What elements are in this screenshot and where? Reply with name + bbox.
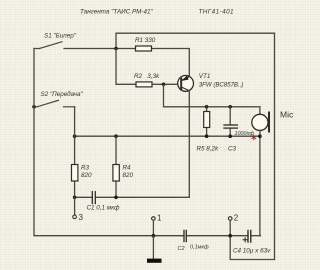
svg-text:820: 820 [81, 172, 92, 179]
ground stem [152, 236, 154, 259]
red asterisk [252, 135, 256, 139]
node 1 stem [152, 220, 154, 235]
resistor R4 wires [115, 136, 117, 164]
junction rail/R4 [114, 134, 118, 138]
resistor R3 [72, 165, 78, 182]
wire bottom rail C2 to C4 [186, 235, 248, 237]
junction R4/C1 [114, 196, 118, 200]
transistor VT1 [178, 76, 194, 92]
switch S1 [34, 42, 136, 49]
svg-text:Тангента "ТАИС РМ-41": Тангента "ТАИС РМ-41" [80, 9, 153, 16]
wire mic bottom down to bottom rail [259, 131, 261, 236]
resistor R3 wires [74, 136, 76, 164]
wire collector down and left to C1 row [116, 91, 189, 198]
svg-text:820: 820 [123, 172, 134, 179]
wire C1 row right part [95, 196, 116, 198]
capacitor C3 plates [224, 124, 237, 126]
wire S2 down to rail [74, 107, 76, 136]
junction S1/R1/loop [114, 47, 118, 51]
wire left rail and bottom rail [34, 49, 184, 236]
svg-text:R2 3,3k: R2 3,3k [134, 73, 160, 80]
resistor R4 [113, 165, 119, 182]
wire R2 to base [152, 83, 181, 85]
svg-text:C2: C2 [178, 246, 185, 252]
svg-text:C4 10µ x 63v: C4 10µ x 63v [233, 248, 271, 255]
junction rail/R5 bottom [205, 134, 209, 138]
capacitor C4 plates [247, 231, 249, 243]
svg-text:VT1: VT1 [199, 73, 211, 80]
wire R2 branch from junction [116, 49, 136, 85]
junction rail/C3 bottom [228, 134, 232, 138]
junction C3 top [228, 105, 232, 109]
junction S2 on left rail [32, 105, 36, 109]
svg-text:C3: C3 [228, 146, 237, 153]
node 1 circle [152, 217, 156, 221]
wire big loop (S1 junction up, top, right side, bottom, up to node2 column) [116, 33, 275, 259]
svg-text:C1 0,1 мкф: C1 0,1 мкф [87, 205, 121, 212]
svg-text:2: 2 [234, 214, 239, 223]
node 2 circle [228, 217, 232, 221]
junction rail/mic column [258, 134, 262, 138]
node 3 circle [73, 215, 77, 219]
svg-text:R5 8,2k: R5 8,2k [197, 146, 220, 153]
capacitor C4 plus sign [243, 238, 247, 242]
capacitor C2 plates [183, 230, 185, 241]
svg-text:3FW (ВС857В..): 3FW (ВС857В..) [199, 81, 244, 88]
svg-text:3: 3 [79, 213, 84, 222]
junction node1/ground [152, 234, 156, 238]
junction node2/bottom rail [228, 234, 232, 238]
svg-text:R3: R3 [81, 165, 90, 172]
svg-text:0,1мкф: 0,1мкф [190, 245, 209, 251]
node 3 stem [74, 197, 76, 215]
junction R5 top [205, 105, 209, 109]
wire base node down and right (mic line) [164, 84, 260, 114]
svg-text:S2 "Передача": S2 "Передача" [41, 90, 84, 98]
wire C1 row left part [75, 196, 93, 198]
resistor R1 [136, 46, 152, 51]
wire bottom rail C4 to mic column [251, 235, 261, 237]
junction base node [162, 83, 166, 87]
svg-text:S1 "Бипер": S1 "Бипер" [44, 33, 77, 40]
resistor R5 wires [206, 107, 208, 112]
svg-text:Mic: Mic [280, 109, 294, 119]
wire collector rail y=136 [75, 135, 260, 137]
node 2 stem [229, 220, 231, 235]
svg-text:ТНГ41-401: ТНГ41-401 [199, 9, 234, 16]
svg-text:R1 330: R1 330 [135, 37, 156, 44]
capacitor C1 plates [91, 192, 93, 204]
switch S2 [34, 100, 75, 107]
svg-text:R4: R4 [123, 165, 132, 172]
microphone Mic [252, 113, 269, 132]
wire R1 right to emitter drop [152, 49, 190, 77]
capacitor C3 wires [229, 107, 231, 125]
ground bar [147, 259, 162, 263]
svg-text:1: 1 [157, 214, 162, 223]
resistor R2 [136, 82, 152, 87]
junction R3/C1 [73, 196, 77, 200]
junction rail/S2/R3 [73, 134, 77, 138]
resistor R5 [204, 112, 210, 128]
